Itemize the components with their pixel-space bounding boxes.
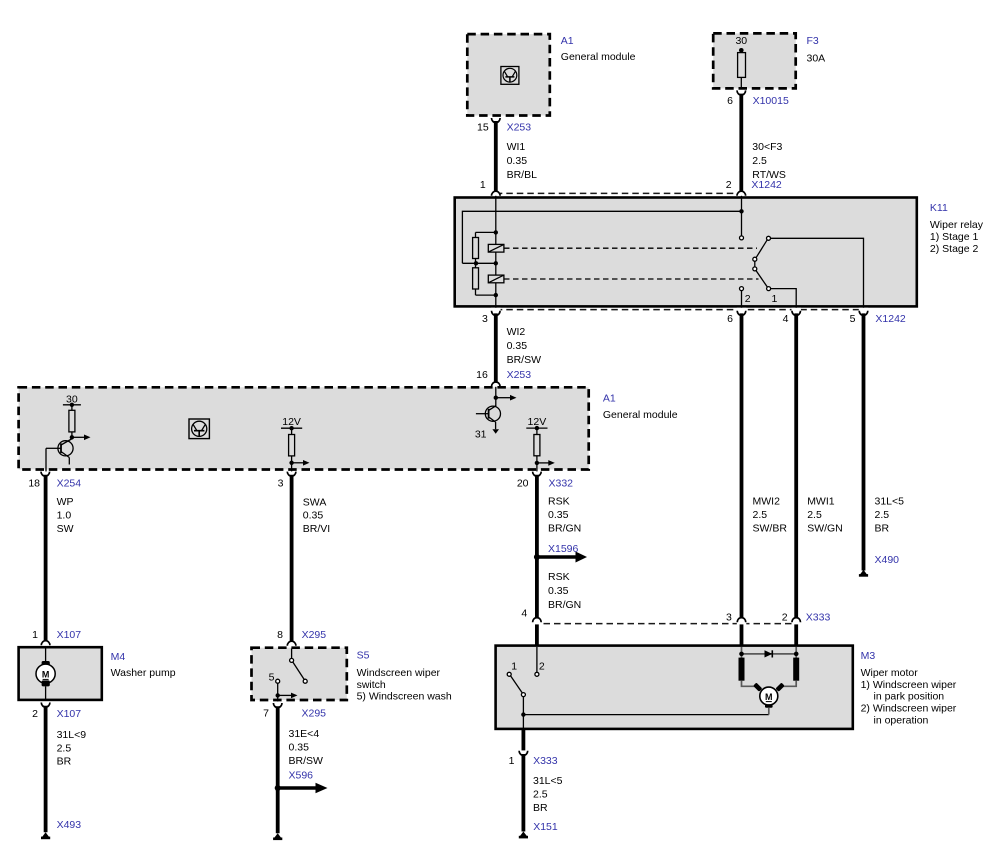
svg-text:X107: X107	[57, 708, 82, 720]
svg-text:X1242: X1242	[751, 179, 782, 191]
resistor K11 R2 stubs	[476, 263, 496, 295]
svg-text:4: 4	[783, 313, 789, 325]
svg-text:Windscreen wiper: Windscreen wiper	[357, 667, 441, 679]
contact circle S5 throw 5	[276, 679, 280, 683]
wire A1 pin 20 to X333 pin 4	[535, 475, 539, 620]
svg-text:Wiper motor: Wiper motor	[861, 667, 919, 679]
wire fuse to box edge	[740, 77, 742, 89]
svg-text:18: 18	[28, 478, 40, 490]
wire junction row	[462, 262, 495, 264]
relay switch arm upper diagonal	[756, 240, 767, 258]
switch S5 box	[252, 648, 347, 700]
switch arm M3	[511, 676, 523, 693]
connector X10015 cup pin 6	[737, 90, 746, 95]
svg-text:X295: X295	[302, 629, 327, 641]
svg-text:1) Stage 1: 1) Stage 1	[930, 231, 979, 243]
connector X1242 dashed line (bottom of K11)	[496, 309, 864, 311]
contact circle arm bottom	[753, 267, 757, 271]
wire A1 pin 18 to M4 pin 1	[44, 475, 48, 642]
motor M3 armature circle	[760, 687, 778, 705]
wire K11 pin 3 to A1 pin 16	[494, 313, 498, 381]
wire motor bottom brush down (gray)	[768, 708, 770, 715]
svg-text:2: 2	[745, 293, 751, 305]
node terminal 30 dot	[739, 48, 744, 53]
connector X1242 cup at pin 3	[492, 311, 501, 316]
motor M3 box	[496, 646, 853, 729]
svg-text:X107: X107	[57, 629, 82, 641]
svg-text:General module: General module	[603, 409, 678, 421]
connector X253 cup at pin 16	[492, 382, 501, 387]
svg-text:BR: BR	[533, 802, 548, 814]
svg-text:in operation: in operation	[874, 715, 929, 727]
control dashed line stage1 to switch	[504, 247, 757, 249]
wire K11 pin 6 to X333 pin 3	[740, 313, 744, 620]
contact circle arm top	[753, 257, 757, 261]
wire M3 pin2 internal (gray)	[795, 647, 797, 659]
fuse F3 box	[713, 33, 796, 88]
resistor K11 R2	[473, 268, 479, 289]
svg-text:5: 5	[269, 672, 275, 684]
node X596 junction with thick arrow	[275, 783, 328, 793]
connector X253 cup pin 15	[492, 118, 501, 123]
svg-text:16: 16	[476, 369, 488, 381]
svg-text:BR: BR	[57, 756, 72, 768]
connector X332 cup pin 20	[533, 472, 542, 477]
arrow right (left block)	[72, 436, 85, 438]
svg-text:2.5: 2.5	[753, 509, 768, 521]
ground X490 symbol	[859, 570, 868, 577]
svg-text:X333: X333	[806, 612, 831, 624]
svg-text:0.35: 0.35	[507, 340, 528, 352]
node junction diode left	[739, 652, 744, 657]
connector X333 cup at pin 2	[792, 618, 801, 623]
node junction with arrow (12V right)	[535, 461, 539, 465]
wire X333 to ground X151	[522, 754, 526, 832]
svg-text:General module: General module	[561, 51, 636, 63]
wire contact 2 to pin 6	[741, 290, 743, 309]
wire winding right to brush (gray)	[781, 681, 797, 687]
svg-text:30<F3: 30<F3	[752, 141, 782, 153]
svg-text:1) Windscreen wiper: 1) Windscreen wiper	[861, 679, 957, 691]
wire M3 top link (gray)	[742, 653, 797, 655]
connector cup pin 3 (A1)	[287, 472, 296, 477]
svg-text:X254: X254	[57, 478, 82, 490]
svg-text:2.5: 2.5	[807, 509, 822, 521]
svg-text:1: 1	[480, 179, 486, 191]
svg-text:BR/SW: BR/SW	[289, 755, 324, 767]
svg-text:BR/VI: BR/VI	[303, 523, 330, 535]
svg-text:switch: switch	[357, 679, 386, 691]
node junction with arrow (12V left)	[289, 461, 293, 465]
svg-text:X10015: X10015	[753, 95, 789, 107]
wire X333 pin 2 into M3	[794, 624, 798, 646]
svg-text:6: 6	[727, 313, 733, 325]
connector X254 cup pin 18	[41, 472, 50, 477]
wire M3 pin4 internal to contact 2	[536, 647, 538, 672]
svg-text:0.35: 0.35	[548, 585, 569, 597]
svg-text:X596: X596	[289, 770, 314, 782]
node junction dots on pin1 wire	[494, 230, 498, 234]
svg-text:WP: WP	[57, 496, 74, 508]
svg-text:WI2: WI2	[507, 326, 526, 338]
svg-text:S5: S5	[357, 650, 370, 662]
contact circle S5 arm end	[303, 679, 307, 683]
svg-text:M4: M4	[111, 651, 126, 663]
wire S5 pin 8 internal	[291, 649, 293, 659]
node junction M3	[521, 712, 525, 716]
svg-text:WI1: WI1	[507, 141, 526, 153]
node X1596 junction with thick arrow	[534, 552, 587, 563]
relay switch arm lower diagonal	[756, 270, 768, 287]
svg-text:15: 15	[477, 122, 489, 134]
connector X333 cup at M3 pin 1	[519, 751, 528, 756]
control unit A1 (middle) general module box	[19, 387, 589, 469]
connector X1242 dashed line (top of K11)	[496, 192, 742, 194]
svg-text:2: 2	[782, 612, 788, 624]
svg-text:X151: X151	[533, 821, 558, 833]
svg-text:31: 31	[475, 429, 487, 441]
relay coil K11 stage2	[488, 275, 504, 283]
svg-text:0.35: 0.35	[507, 155, 528, 167]
ground X151 symbol	[519, 832, 528, 839]
washer pump M4 box	[19, 647, 102, 700]
brush M3 bottom	[765, 704, 773, 708]
svg-text:31L<9: 31L<9	[57, 729, 87, 741]
connector X1242 cup at pin 1	[492, 191, 501, 196]
svg-text:5) Windscreen wash: 5) Windscreen wash	[357, 691, 452, 703]
svg-text:X490: X490	[875, 554, 900, 566]
A1 icon (wiper pictogram, middle)	[189, 419, 209, 439]
svg-text:2.5: 2.5	[533, 789, 548, 801]
control unit A1 (top) general module box	[467, 34, 550, 115]
svg-text:A1: A1	[603, 393, 616, 405]
relay switch arm mid segment	[754, 261, 756, 267]
wire X333 pin 3 into M3	[740, 624, 744, 646]
svg-text:1: 1	[32, 629, 38, 641]
svg-text:M: M	[42, 670, 50, 680]
wire X333 pin 4 into M3	[535, 624, 539, 646]
svg-text:3: 3	[482, 313, 488, 325]
svg-text:X493: X493	[57, 819, 82, 831]
svg-text:0.35: 0.35	[303, 510, 324, 522]
motor M4 armature	[36, 664, 55, 683]
svg-text:Washer pump: Washer pump	[111, 667, 176, 679]
contact circle throw 1	[767, 287, 771, 291]
A1 icon (wiper pictogram)	[501, 67, 519, 85]
svg-text:K11: K11	[930, 202, 948, 214]
ground X596 symbol	[273, 833, 282, 840]
svg-text:3: 3	[726, 612, 732, 624]
connector X333 cup at pin 3	[737, 618, 746, 623]
svg-text:M3: M3	[861, 650, 876, 662]
svg-text:in park position: in park position	[874, 691, 945, 703]
svg-text:2) Stage 2: 2) Stage 2	[930, 243, 979, 255]
wire transistor base to pin 18	[45, 448, 47, 471]
brush M3 right (rotated)	[775, 683, 784, 692]
node junction with arrow (S5)	[276, 693, 280, 697]
svg-text:M: M	[765, 692, 773, 702]
svg-text:BR/SW: BR/SW	[507, 354, 542, 366]
svg-text:1: 1	[772, 293, 778, 305]
wire M3 junction to motor brush	[523, 714, 768, 716]
switch arm S5	[293, 662, 305, 680]
svg-text:F3: F3	[807, 35, 819, 47]
fuse F3 element	[738, 53, 746, 78]
wire K11 pin2 down to contact	[741, 196, 743, 236]
svg-text:Wiper relay: Wiper relay	[930, 219, 984, 231]
svg-text:2: 2	[32, 708, 38, 720]
brush M3 left (rotated)	[753, 683, 762, 692]
resistor K11 R1	[473, 238, 479, 259]
terminal 12V bar and dot (right)	[526, 427, 547, 429]
wire F3 to K11 pin 2	[739, 94, 743, 192]
svg-text:X1242: X1242	[875, 313, 906, 325]
wire A1 pin 3 to S5 pin 8	[290, 475, 294, 642]
winding M3 left	[739, 658, 745, 681]
wire A1 pin 15 to K11 pin 1	[494, 121, 498, 191]
svg-text:0.35: 0.35	[289, 742, 310, 754]
svg-text:31L<5: 31L<5	[875, 496, 905, 508]
ground X493 symbol	[41, 832, 50, 839]
wire pin 16 into box	[495, 387, 497, 407]
wire contact 1 to pin 4	[770, 289, 796, 309]
svg-text:7: 7	[263, 708, 269, 720]
svg-text:X253: X253	[507, 369, 532, 381]
svg-text:X333: X333	[533, 755, 558, 767]
svg-text:BR/BL: BR/BL	[507, 169, 538, 181]
contact circle M3 arm pivot	[521, 693, 525, 697]
control dashed line stage2 to switch	[504, 278, 759, 280]
contact circle throw 2	[740, 287, 744, 291]
svg-text:BR: BR	[875, 523, 890, 535]
svg-text:BR/GN: BR/GN	[548, 523, 581, 535]
wire S5 pin 7 to ground X596	[276, 706, 280, 833]
wire M4 to pin 2 internal	[45, 686, 47, 701]
svg-text:X253: X253	[507, 122, 532, 134]
svg-text:3: 3	[278, 478, 284, 490]
svg-text:4: 4	[521, 608, 527, 620]
svg-text:0.35: 0.35	[548, 509, 569, 521]
diode M3	[765, 650, 773, 657]
wire winding left to brush (gray)	[742, 681, 758, 687]
connector X107 cup at M4 pin 2	[41, 703, 50, 708]
winding M3 right	[793, 658, 799, 681]
motor M4 brush bottom	[42, 680, 50, 686]
svg-text:20: 20	[517, 478, 529, 490]
svg-text:30A: 30A	[807, 53, 826, 65]
svg-text:A1: A1	[561, 35, 574, 47]
svg-text:X295: X295	[302, 708, 327, 720]
svg-text:2: 2	[726, 179, 732, 191]
wire M3 pin 1 below box	[522, 729, 526, 750]
svg-text:31E<4: 31E<4	[289, 728, 320, 740]
connector X1242 cup at pin 4	[792, 311, 801, 316]
wire switch common to pin 5	[770, 238, 863, 309]
svg-text:2.5: 2.5	[752, 155, 767, 167]
connector X295 cup at S5 pin 8	[287, 641, 296, 646]
svg-text:31L<5: 31L<5	[533, 775, 563, 787]
motor M4 brush top	[42, 661, 50, 667]
wire M3 pin3 internal (gray)	[741, 647, 743, 659]
connector X107 cup at M4 pin 1	[41, 641, 50, 646]
connector X1242 cup at pin 2	[737, 191, 746, 196]
svg-text:8: 8	[277, 629, 283, 641]
wire resistor to pin 20	[536, 456, 538, 472]
node junction with arrow (left)	[70, 435, 74, 439]
internal ground triangle	[492, 429, 499, 434]
node junction diode right	[794, 652, 799, 657]
svg-text:6: 6	[727, 95, 733, 107]
transistor Q (right)	[476, 406, 501, 429]
svg-text:SW/BR: SW/BR	[753, 523, 788, 535]
contact circle pin2 feed	[740, 236, 744, 240]
node junction with arrow (pin 16)	[494, 396, 498, 400]
contact circle S5 top	[290, 658, 294, 662]
svg-text:SW: SW	[57, 523, 74, 535]
connector X333 cup at pin 4	[533, 618, 542, 623]
terminal 30 bar and dot	[63, 404, 81, 406]
svg-text:BR/GN: BR/GN	[548, 599, 581, 611]
contact circle common	[767, 236, 771, 240]
svg-text:MWI2: MWI2	[753, 496, 781, 508]
svg-text:1.0: 1.0	[57, 510, 72, 522]
relay K11 box	[455, 198, 917, 307]
node junction pin2/top rail	[739, 209, 743, 213]
terminal 12V bar and dot (left)	[281, 427, 302, 429]
wire K11 pin 4 to X333 pin 2	[794, 313, 798, 620]
relay coil K11 stage1	[488, 244, 504, 252]
wire resistor to junction	[71, 432, 73, 440]
resistor A1 12V (right)	[534, 435, 540, 456]
svg-text:2) Windscreen wiper: 2) Windscreen wiper	[861, 703, 957, 715]
resistor K11 R1 stubs	[476, 232, 496, 263]
svg-text:SWA: SWA	[303, 497, 327, 509]
wire resistor to pin 3	[291, 456, 293, 472]
svg-text:X1596: X1596	[548, 543, 579, 555]
connector X1242 cup at pin 5	[859, 311, 868, 316]
svg-text:1: 1	[511, 661, 517, 673]
wire M4 pin 1 internal	[45, 646, 47, 662]
connector X333 dashed line	[533, 623, 799, 625]
resistor A1 12V (left)	[289, 435, 295, 456]
svg-text:2.5: 2.5	[57, 742, 72, 754]
svg-text:X332: X332	[549, 478, 574, 490]
svg-text:2: 2	[539, 661, 545, 673]
wire K11 pin 1 to coils (vertical)	[495, 196, 497, 309]
wire M3 arm to pin 1	[522, 696, 524, 728]
connector X1242 cup at pin 6	[737, 311, 746, 316]
wire M4 pin 2 to ground X493	[44, 706, 48, 833]
wire contact 5 to pin 7	[277, 683, 279, 702]
svg-text:2.5: 2.5	[875, 509, 890, 521]
transistor Q (left)	[46, 439, 73, 465]
wire K11 loop from junction row to top rail	[462, 211, 741, 263]
svg-text:RSK: RSK	[548, 496, 570, 508]
svg-text:30: 30	[735, 35, 747, 47]
svg-text:RSK: RSK	[548, 571, 570, 583]
svg-text:5: 5	[850, 313, 856, 325]
svg-text:SW/GN: SW/GN	[807, 523, 843, 535]
connector X295 cup at S5 pin 7	[273, 703, 282, 708]
contact circle M3 park (1)	[507, 672, 511, 676]
svg-text:MWI1: MWI1	[807, 496, 835, 508]
wire K11 pin 5 to ground X490	[862, 313, 866, 570]
contact circle M3 run (2)	[535, 672, 539, 676]
svg-text:1: 1	[509, 755, 515, 767]
resistor A1 left	[69, 410, 75, 432]
wire terminal 30 to resistor	[71, 405, 73, 411]
